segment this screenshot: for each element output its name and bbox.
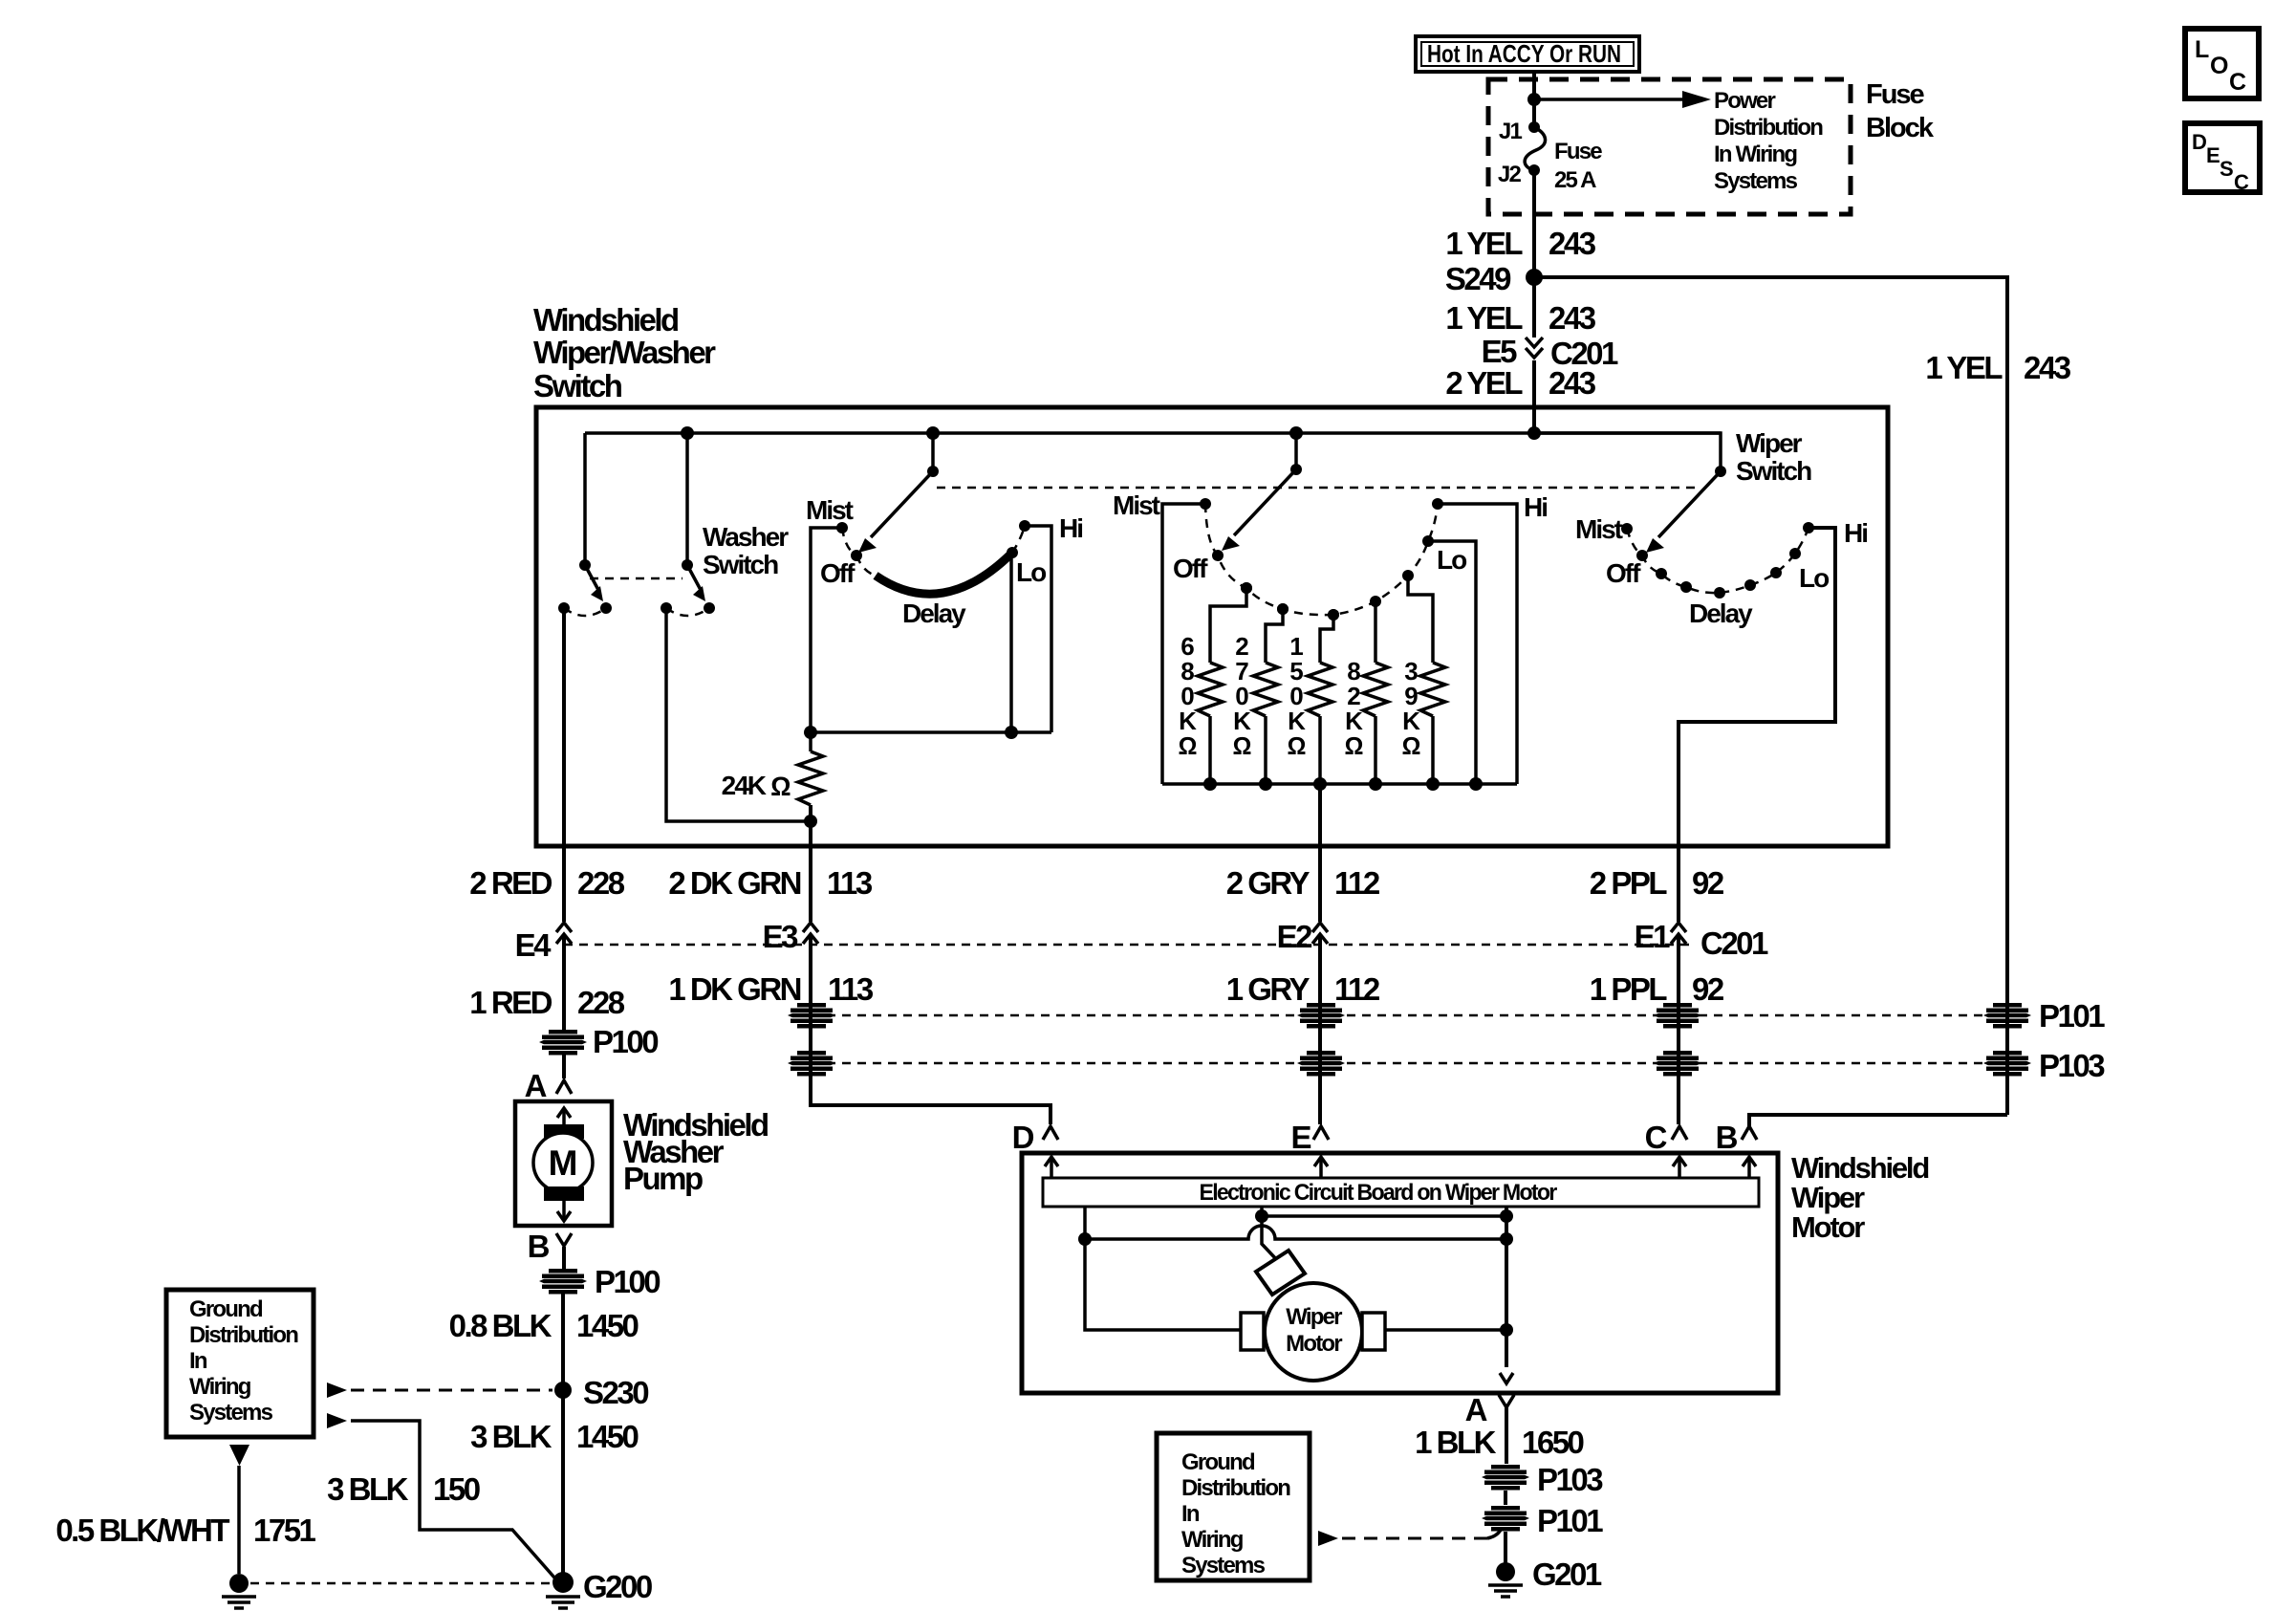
svg-text:1450: 1450 xyxy=(576,1419,639,1454)
ground terminal left xyxy=(222,1574,256,1608)
wire: 2 YEL into switch box xyxy=(1532,360,1536,433)
pin B washer pump xyxy=(528,1229,572,1264)
svg-text:1 BLK: 1 BLK xyxy=(1415,1425,1497,1460)
wire: 2 RED down to E4 xyxy=(562,850,566,922)
svg-text:Systems: Systems xyxy=(1714,168,1798,194)
Ground Distribution box (right) xyxy=(1157,1433,1310,1580)
node: 24K / washer junction xyxy=(804,815,817,828)
svg-text:Wiper: Wiper xyxy=(1736,428,1803,458)
svg-text:Hi: Hi xyxy=(1524,492,1547,522)
resistor 270K ohm xyxy=(1233,603,1289,784)
splice S249 xyxy=(1445,261,1543,296)
wire: 2 PPL down to E1 xyxy=(1677,850,1680,922)
connector P103 on BLK xyxy=(1482,1462,1603,1497)
svg-text:150: 150 xyxy=(433,1471,480,1507)
svg-text:112: 112 xyxy=(1334,971,1380,1007)
washer switch right pole xyxy=(661,559,715,616)
svg-text:Switch: Switch xyxy=(703,550,778,579)
svg-text:O: O xyxy=(2210,53,2228,79)
svg-text:Delay: Delay xyxy=(1689,599,1753,628)
svg-text:In: In xyxy=(1181,1501,1200,1527)
pin B wiper motor xyxy=(1716,1120,1757,1155)
svg-text:Block: Block xyxy=(1866,113,1935,143)
svg-text:M: M xyxy=(549,1143,578,1183)
node: rail junction at feed xyxy=(1527,426,1541,440)
washer switch left pole wire xyxy=(583,433,587,565)
label: 0.5 BLK/WHT 1751 xyxy=(55,1513,315,1548)
pin C wiper motor xyxy=(1645,1120,1687,1155)
svg-text:Wiring: Wiring xyxy=(1181,1527,1244,1553)
svg-text:243: 243 xyxy=(1549,226,1596,261)
label: Windshield Wiper/Washer Switch xyxy=(533,302,716,403)
wire: 1 DK GRN through connectors xyxy=(809,936,812,1099)
Windshield Wiper/Washer Switch box xyxy=(536,407,1888,846)
wiper switch 1 arm xyxy=(858,466,939,553)
left box output arrow down xyxy=(229,1445,249,1466)
node: rail junction at wiper sw1 xyxy=(926,426,940,440)
sw3 Mist contact xyxy=(1575,514,1633,544)
svg-text:113: 113 xyxy=(827,865,873,901)
svg-text:228: 228 xyxy=(577,865,625,901)
board input arrow E xyxy=(1314,1157,1328,1178)
sw2 Mist contact xyxy=(1113,490,1211,520)
svg-text:Off: Off xyxy=(820,558,856,588)
svg-text:Pump: Pump xyxy=(623,1161,703,1196)
dashed connector row P101 xyxy=(812,1014,2007,1017)
pump brush bottom xyxy=(544,1186,584,1201)
DESC box (top right) xyxy=(2185,123,2260,194)
node: branch to power distribution xyxy=(1527,93,1541,106)
svg-text:S249: S249 xyxy=(1445,261,1511,296)
svg-text:C201: C201 xyxy=(1700,925,1768,961)
svg-text:2 YEL: 2 YEL xyxy=(1445,365,1523,401)
label: 2 PPL 92 xyxy=(1590,865,1724,901)
wire: into 24K resistor xyxy=(809,732,812,751)
svg-text:S230: S230 xyxy=(583,1375,648,1410)
svg-text:Distribution: Distribution xyxy=(189,1322,298,1348)
svg-text:2 GRY: 2 GRY xyxy=(1226,865,1310,901)
svg-text:D: D xyxy=(2192,130,2207,154)
connector P100 lower xyxy=(539,1264,660,1299)
wiper switch 1 pivot wire xyxy=(931,433,935,471)
label: 2 DK GRN 113 xyxy=(668,865,873,901)
electronic circuit board bar xyxy=(1043,1178,1759,1207)
svg-text:A: A xyxy=(1465,1392,1487,1427)
svg-text:E2: E2 xyxy=(1277,919,1313,954)
svg-text:Lo: Lo xyxy=(1016,557,1047,587)
wire: 1 PPL through connectors to pin C xyxy=(1677,936,1680,1124)
connector row C201 dashed line xyxy=(564,944,1690,947)
label: 1 YEL 243 (right branch) xyxy=(1925,350,2070,385)
wire: 3 BLK 1450 S230 to G200 xyxy=(561,1390,565,1573)
svg-text:Windshield: Windshield xyxy=(533,302,678,337)
svg-text:Lo: Lo xyxy=(1799,563,1830,593)
svg-text:A: A xyxy=(525,1068,547,1103)
svg-text:E3: E3 xyxy=(763,919,799,954)
connector P103 on right YEL xyxy=(1983,1048,2105,1083)
wire: between P103 and P101 xyxy=(1504,1491,1507,1505)
wire: sw1 Hi contact right and down xyxy=(1025,526,1051,732)
pin A washer pump xyxy=(525,1068,572,1103)
svg-text:C: C xyxy=(2229,69,2246,96)
svg-text:1 PPL: 1 PPL xyxy=(1590,971,1668,1007)
svg-text:J2: J2 xyxy=(1498,162,1522,187)
Fuse Block dashed box xyxy=(1488,79,1851,214)
connector E4 xyxy=(515,923,572,963)
svg-text:J1: J1 xyxy=(1499,119,1523,144)
svg-text:P103: P103 xyxy=(2039,1048,2105,1083)
sw3 dashed selector arc xyxy=(1627,528,1809,593)
svg-text:1 RED: 1 RED xyxy=(469,985,552,1020)
label: 1 PPL 92 xyxy=(1590,971,1724,1007)
wire: 24K resistor to box exit xyxy=(809,805,812,850)
washer switch left pole xyxy=(558,559,612,616)
svg-text:Hi: Hi xyxy=(1059,513,1082,543)
svg-text:Power: Power xyxy=(1714,88,1775,114)
svg-text:Switch: Switch xyxy=(1736,456,1811,486)
pump input arrow xyxy=(557,1108,571,1135)
svg-text:Motor: Motor xyxy=(1286,1331,1342,1357)
svg-text:Wiper: Wiper xyxy=(1286,1304,1342,1330)
sw1 dashed arc Off-Delay xyxy=(856,555,876,576)
svg-text:B: B xyxy=(1716,1120,1738,1155)
svg-text:24K: 24K xyxy=(722,771,767,800)
svg-text:B: B xyxy=(528,1229,550,1264)
node: rail junction at wiper sw2 xyxy=(1289,426,1303,440)
svg-text:Mist: Mist xyxy=(806,495,854,525)
svg-text:112: 112 xyxy=(1334,865,1380,901)
label: 1 YEL 243 xyxy=(1445,226,1595,261)
wire: hot feed into fuse block xyxy=(1532,72,1536,127)
svg-text:0.5 BLK/WHT: 0.5 BLK/WHT xyxy=(55,1513,229,1548)
label: Power Distribution In Wiring Systems xyxy=(1714,88,1823,194)
svg-text:Ground: Ground xyxy=(189,1296,263,1322)
sw3 Lo contact xyxy=(1789,548,1830,593)
wire: sw2 bottom bus xyxy=(1162,782,1517,786)
connector P103 on PPL xyxy=(1654,1051,1701,1077)
wire: right 1 YEL through connectors xyxy=(2005,1003,2009,1115)
svg-text:228: 228 xyxy=(577,985,625,1020)
board input arrow D xyxy=(1045,1157,1058,1178)
wire: sw2 Hi contact to bus xyxy=(1438,504,1517,784)
label: Windshield Wiper Motor xyxy=(1791,1151,1928,1244)
pin J2 xyxy=(1498,162,1540,187)
svg-text:E: E xyxy=(2206,143,2220,167)
connector P101 on DK GRN xyxy=(788,1003,835,1029)
connector P100 xyxy=(539,1024,658,1059)
svg-text:C: C xyxy=(1645,1120,1667,1155)
svg-text:P100: P100 xyxy=(593,1024,658,1059)
label: 2 YEL 243 xyxy=(1445,365,1595,401)
arrow: motor output down at box edge xyxy=(1500,1373,1513,1383)
node: right column upper junction xyxy=(1500,1209,1513,1223)
svg-text:Off: Off xyxy=(1173,554,1208,583)
pump motor M circle xyxy=(533,1133,593,1192)
wire: P100 to S230 xyxy=(561,1294,565,1390)
svg-text:G201: G201 xyxy=(1532,1557,1602,1592)
svg-text:1 YEL: 1 YEL xyxy=(1445,226,1523,261)
svg-text:Motor: Motor xyxy=(1791,1210,1865,1244)
node: bus dots xyxy=(1203,777,1483,791)
connector E2 xyxy=(1277,919,1328,954)
wire: fuse output down to S249 xyxy=(1532,170,1536,277)
wire: P101 to G201 xyxy=(1504,1532,1507,1568)
wire: sw2 Lo contact to bus xyxy=(1428,541,1476,784)
wire: sw1 Mist contact to left column xyxy=(811,528,842,732)
fuse F 25A symbol xyxy=(1525,127,1545,170)
label: 2 GRY 112 xyxy=(1226,865,1380,901)
svg-text:Systems: Systems xyxy=(189,1400,273,1426)
svg-text:Ω: Ω xyxy=(1402,731,1420,760)
connector P103 on GRY xyxy=(1297,1051,1345,1077)
svg-text:E4: E4 xyxy=(515,927,552,963)
connector P103 on DK GRN xyxy=(788,1051,835,1077)
pin D wiper motor xyxy=(1012,1120,1058,1155)
wire: DK GRN to motor pin D xyxy=(811,1099,1051,1124)
wire: 2 GRY down to E2 xyxy=(1318,850,1322,922)
Ground Distribution box (left) xyxy=(166,1290,314,1437)
connector P101 on BLK xyxy=(1482,1503,1603,1538)
svg-text:113: 113 xyxy=(828,971,874,1007)
node: sw1 bottom left xyxy=(804,726,817,739)
wire: 3 BLK 150 branch xyxy=(327,1413,554,1578)
wire: board left column down to motor xyxy=(1085,1207,1241,1330)
label: 3 BLK 1450 xyxy=(470,1419,638,1454)
resistor 82K ohm xyxy=(1345,596,1388,784)
svg-text:Distribution: Distribution xyxy=(1714,115,1823,141)
dashed reference to ground distribution (left) xyxy=(327,1382,552,1398)
wire: board right column down through box xyxy=(1505,1207,1508,1367)
svg-text:Ω: Ω xyxy=(1345,731,1363,760)
svg-text:3 BLK: 3 BLK xyxy=(327,1471,409,1507)
label: 1 DK GRN 113 xyxy=(668,971,874,1007)
wiper motor M1 circle xyxy=(1265,1283,1362,1381)
wire: sw1 bottom bus xyxy=(811,730,1051,734)
wire: sw2 output to box exit xyxy=(1318,784,1322,850)
Windshield Washer Pump box xyxy=(515,1101,612,1226)
svg-text:1650: 1650 xyxy=(1522,1425,1584,1460)
wiper switch 3 feed wire xyxy=(1534,433,1721,471)
wire: sw2 Mist to left column xyxy=(1162,504,1205,784)
wire: sw3 Hi contact to box exit xyxy=(1679,528,1835,850)
svg-text:2 DK GRN: 2 DK GRN xyxy=(668,865,800,901)
sw2 arc position dots overlay xyxy=(1241,582,1339,620)
washer switch gang dashed line xyxy=(590,577,682,580)
sw1 Mist contact xyxy=(806,495,854,533)
resistor 39K ohm xyxy=(1402,570,1445,784)
svg-text:Hot In ACCY Or RUN: Hot In ACCY Or RUN xyxy=(1427,39,1621,68)
svg-text:2 RED: 2 RED xyxy=(469,865,552,901)
svg-text:Switch: Switch xyxy=(533,368,622,403)
svg-text:In Wiring: In Wiring xyxy=(1714,142,1797,167)
label: Washer Switch xyxy=(703,522,789,579)
wire: inner supply rail xyxy=(585,431,1721,435)
wire: 1 GRY through connectors to pin E xyxy=(1318,936,1322,1124)
sw1 Lo contact xyxy=(1007,547,1047,587)
svg-text:243: 243 xyxy=(1549,365,1596,401)
pump output arrow xyxy=(557,1201,571,1221)
wire: P100 to pump pin A xyxy=(562,1055,566,1078)
Windshield Wiper Motor box xyxy=(1022,1153,1778,1393)
svg-text:Ω: Ω xyxy=(1179,731,1197,760)
pin A wiper motor xyxy=(1465,1392,1514,1427)
svg-text:P100: P100 xyxy=(595,1264,660,1299)
wire: washer right contact to 24K junction xyxy=(666,608,811,821)
wire: 1 BLK 1650 down xyxy=(1505,1407,1508,1464)
svg-text:P103: P103 xyxy=(1537,1462,1603,1497)
ground G201 xyxy=(1488,1557,1602,1597)
ground G200 xyxy=(546,1569,652,1608)
svg-text:0.8 BLK: 0.8 BLK xyxy=(449,1308,552,1343)
label: 2 RED 228 xyxy=(469,865,624,901)
node: right column lower junction xyxy=(1500,1232,1513,1246)
wire: S249 branch to right vertical xyxy=(1534,277,2007,1003)
connector E5 C201 xyxy=(1482,334,1618,371)
pump brush top xyxy=(544,1124,584,1139)
label: 1 GRY 112 xyxy=(1226,971,1380,1007)
node: armature column junction xyxy=(1255,1209,1268,1223)
pin E wiper motor xyxy=(1290,1120,1329,1155)
sw2 Off contact xyxy=(1173,550,1224,583)
label: 1 RED 228 xyxy=(469,985,624,1020)
svg-text:1 YEL: 1 YEL xyxy=(1445,300,1523,336)
svg-text:1 GRY: 1 GRY xyxy=(1226,971,1310,1007)
svg-text:3 BLK: 3 BLK xyxy=(470,1419,552,1454)
node: sw1 bottom Lo xyxy=(1005,726,1018,739)
wire: 0.5 BLK/WHT down xyxy=(237,1466,241,1574)
connector E3 xyxy=(763,919,818,954)
sw1 dashed arc Mist-Off xyxy=(842,528,856,555)
board input arrow C xyxy=(1673,1157,1686,1178)
resistor 680K ohm xyxy=(1179,582,1252,784)
wire: right YEL to pin B xyxy=(1749,1115,2007,1126)
connector P101 on right YEL xyxy=(1983,998,2105,1034)
svg-text:D: D xyxy=(1012,1120,1034,1155)
washer switch right pole wire xyxy=(685,433,689,565)
sw3 Off contact xyxy=(1606,550,1648,588)
svg-text:In: In xyxy=(189,1348,207,1374)
svg-text:E5: E5 xyxy=(1482,334,1518,369)
sw1 Delay thick arc xyxy=(876,553,1012,594)
svg-text:1 DK GRN: 1 DK GRN xyxy=(668,971,800,1007)
svg-text:Delay: Delay xyxy=(902,599,966,628)
svg-text:Distribution: Distribution xyxy=(1181,1475,1290,1501)
sw2 dashed selector arc xyxy=(1205,504,1438,615)
svg-text:Systems: Systems xyxy=(1181,1553,1266,1578)
svg-text:Fuse: Fuse xyxy=(1866,79,1925,110)
svg-text:1450: 1450 xyxy=(576,1308,639,1343)
node: rail junction at washer right pole xyxy=(681,426,694,440)
svg-text:25 A: 25 A xyxy=(1554,167,1596,193)
wire: arrow to Power Distribution xyxy=(1534,91,1711,108)
svg-text:1751: 1751 xyxy=(253,1513,316,1548)
wiper switch 3 arm xyxy=(1646,466,1726,553)
splice S230 xyxy=(554,1375,648,1410)
connector E1 xyxy=(1635,919,1768,961)
wiper switch gang dashed line xyxy=(937,487,1700,490)
connector P101 on GRY xyxy=(1297,1003,1345,1029)
resistor 24K ohm xyxy=(722,751,823,805)
svg-text:2 PPL: 2 PPL xyxy=(1590,865,1668,901)
svg-text:Ω: Ω xyxy=(770,772,791,801)
wire: 1 RED to P100 xyxy=(562,936,566,1030)
svg-text:Washer: Washer xyxy=(703,522,789,552)
board input arrow B xyxy=(1743,1157,1756,1178)
svg-text:Wiring: Wiring xyxy=(189,1374,251,1400)
wire: S249 down to connector C201 E5 xyxy=(1532,277,1536,337)
label: 1 BLK 1650 xyxy=(1415,1425,1583,1460)
svg-text:C: C xyxy=(2234,170,2249,194)
sw2 Hi contact xyxy=(1432,492,1547,522)
wire: 2 DK GRN down to E3 xyxy=(809,850,812,922)
sw1 dashed arc Lo-Hi xyxy=(1012,526,1025,553)
wire: pump pin B down xyxy=(562,1247,566,1269)
wire: washer left contact down to box exit xyxy=(562,608,566,850)
node: right column motor junction xyxy=(1500,1323,1513,1337)
dashed wire to G200 xyxy=(250,1582,551,1585)
svg-text:Fuse: Fuse xyxy=(1554,139,1602,164)
label: Wiper Motor xyxy=(1286,1304,1342,1357)
sw3 Hi contact xyxy=(1803,518,1867,548)
LOC box (top right) xyxy=(2185,29,2259,98)
label: 0.8 BLK 1450 xyxy=(449,1308,639,1343)
wiper switch 2 arm xyxy=(1222,464,1302,551)
svg-text:243: 243 xyxy=(1549,300,1596,336)
connector P101 on PPL xyxy=(1654,1003,1701,1029)
sw1 Off contact xyxy=(820,550,862,588)
label: Windshield Washer Pump xyxy=(623,1107,768,1196)
svg-text:Hi: Hi xyxy=(1844,518,1867,548)
pin J1 xyxy=(1499,119,1540,144)
svg-text:Ω: Ω xyxy=(1233,731,1251,760)
svg-text:243: 243 xyxy=(2024,350,2071,385)
Fuse Block label xyxy=(1866,79,1935,143)
motor right terminal xyxy=(1362,1313,1385,1350)
svg-text:Windshield: Windshield xyxy=(1791,1151,1928,1185)
motor left terminal xyxy=(1241,1313,1264,1350)
wire: internal bus lower with hop over armature lead xyxy=(1085,1226,1506,1239)
svg-text:Electronic Circuit Board on Wi: Electronic Circuit Board on Wiper Motor xyxy=(1200,1180,1557,1206)
svg-text:Wiper: Wiper xyxy=(1791,1181,1865,1214)
svg-text:E1: E1 xyxy=(1635,919,1671,954)
dashed reference to ground distribution (right) xyxy=(1318,1530,1501,1546)
sw3 arc position dots xyxy=(1656,567,1782,599)
label: 3 BLK 150 xyxy=(327,1471,480,1507)
node: left column junction xyxy=(1078,1232,1092,1246)
Hot In ACCY Or RUN box xyxy=(1416,36,1639,72)
label: Wiper Switch xyxy=(1736,428,1811,486)
label: 1 YEL 243 xyxy=(1445,300,1595,336)
motor armature crank (tilted rect) xyxy=(1256,1251,1305,1295)
svg-text:L: L xyxy=(2195,36,2209,63)
wire: sw1 Lo contact down xyxy=(1009,553,1013,732)
svg-text:92: 92 xyxy=(1692,971,1724,1007)
svg-text:P101: P101 xyxy=(2039,998,2105,1034)
svg-text:Wiper/Washer: Wiper/Washer xyxy=(533,335,716,370)
svg-text:1 YEL: 1 YEL xyxy=(1925,350,2003,385)
svg-text:Ground: Ground xyxy=(1181,1449,1255,1475)
sw1 Hi contact xyxy=(1019,513,1082,543)
svg-text:Ω: Ω xyxy=(1288,731,1306,760)
svg-text:E: E xyxy=(1290,1120,1310,1155)
svg-text:Mist: Mist xyxy=(1575,514,1623,544)
wiper switch 2 pivot wire xyxy=(1294,433,1298,469)
resistor 150K ohm xyxy=(1288,609,1339,784)
wire: internal bus upper xyxy=(1262,1214,1506,1218)
svg-text:P101: P101 xyxy=(1537,1503,1603,1538)
wire: board armature column and lead to crank xyxy=(1262,1207,1278,1261)
svg-text:G200: G200 xyxy=(583,1569,652,1604)
